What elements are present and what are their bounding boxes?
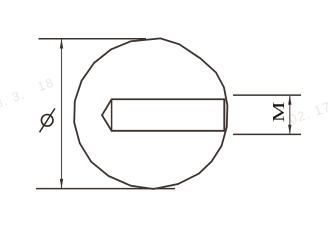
extension line bottom (diameter) <box>36 188 175 190</box>
arrowhead diameter bottom <box>60 179 63 189</box>
arrowhead M bottom <box>288 125 291 135</box>
dimension line thread M <box>289 96 291 134</box>
arrowhead M top <box>288 95 291 105</box>
dimension line diameter <box>61 40 63 189</box>
ball outline (polygonal circle) <box>74 38 227 189</box>
hole right end line <box>223 99 225 131</box>
svg-text:M: M <box>269 102 288 123</box>
threaded hole (slot with conical drill tip) <box>102 99 224 131</box>
cone base line <box>111 99 113 131</box>
extension line bottom (thread M) <box>233 133 301 135</box>
extension line top (thread M) <box>233 94 301 96</box>
diameter symbol circle <box>41 115 53 127</box>
arrowhead diameter top <box>60 39 63 49</box>
extension line top (diameter) <box>39 38 147 40</box>
diameter symbol slash <box>40 108 55 132</box>
